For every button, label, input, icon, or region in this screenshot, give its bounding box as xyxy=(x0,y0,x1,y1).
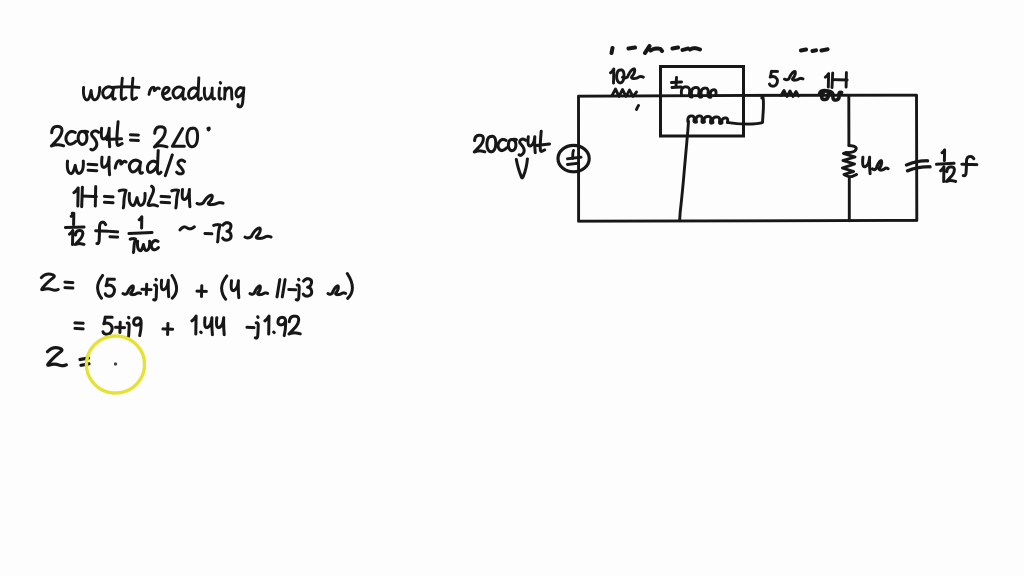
wire secondary left lead down xyxy=(680,122,689,221)
equation "= 5+j9 + 1.44 - j1.92" xyxy=(75,316,300,338)
wire outer loop (rectangle) xyxy=(579,95,917,221)
dot in highlight circle xyxy=(114,362,117,365)
capacitor plates xyxy=(907,161,931,171)
cut-off handwriting top xyxy=(612,46,828,53)
voltage source +/- symbol xyxy=(568,151,582,165)
wire 4ohm branch vertical xyxy=(847,96,850,221)
resistor 4ohm squiggle xyxy=(843,146,857,177)
transformer +/- mark xyxy=(672,78,682,88)
label "1H" xyxy=(825,73,847,88)
equation "Z = (5ohm+j4) + (4ohm || -j3ohm)" xyxy=(41,274,352,300)
equation "2cos4t = 2 angle 0deg" xyxy=(51,122,209,150)
equation "1/12 F = 1/jwC ~ -j3 ohm" xyxy=(66,213,272,252)
voltage source circle xyxy=(558,145,589,171)
equation "omega = 4 rad/s" xyxy=(67,151,184,176)
label "1/12 F" xyxy=(937,150,977,182)
equation "1H = jwL = j4 ohm" xyxy=(72,186,223,214)
partial "Z =" answer line xyxy=(48,348,90,366)
label "5 ohm" xyxy=(770,71,804,86)
label "4 ohm" xyxy=(863,157,888,173)
highlight circle (yellow) xyxy=(87,336,145,393)
resistor 10ohm zigzag xyxy=(612,89,637,97)
inductor 1H coils xyxy=(820,91,842,101)
inductor primary coil xyxy=(681,87,716,98)
label "10 ohm" xyxy=(611,69,644,83)
resistor 5ohm zigzag xyxy=(781,91,799,97)
label "watt reading" xyxy=(83,78,243,107)
tick mark under wire xyxy=(637,106,639,110)
inductor secondary coil xyxy=(688,116,728,124)
transformer box xyxy=(661,67,744,137)
label "20cos4t V" xyxy=(474,131,549,178)
wire secondary right lead up xyxy=(728,97,764,124)
